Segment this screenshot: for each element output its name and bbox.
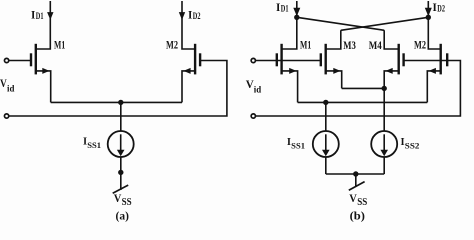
arrow source M2 (b) xyxy=(429,68,436,74)
current source ISS1 (a) xyxy=(108,131,134,157)
svg-text:M4: M4 xyxy=(369,40,382,52)
wire source M2 (b) xyxy=(427,71,440,103)
wire drain M1 (a) xyxy=(36,1,51,49)
wire VSS stem (b) xyxy=(355,174,357,186)
wire below ISS1 (b) xyxy=(325,157,327,174)
wire cross M3 to ID2 node xyxy=(341,17,429,30)
transistor M1 (b) channel bar xyxy=(280,44,282,75)
current source ISS1 (b) xyxy=(313,131,339,157)
svg-text:D1: D1 xyxy=(36,11,44,21)
svg-text:SS2: SS2 xyxy=(405,141,420,151)
node drain M2-M3 (b) xyxy=(426,15,431,20)
node dot below ISS1 (a) xyxy=(118,170,123,175)
transistor M2 (a) channel bar xyxy=(194,44,196,75)
transistor M2 (a) gate bar xyxy=(199,53,201,66)
wire drain M2 (a) xyxy=(182,1,195,49)
wire below ISS1 (a) xyxy=(120,157,122,190)
wire below ISS2 (b) xyxy=(383,157,385,174)
svg-text:D1: D1 xyxy=(281,3,289,13)
svg-text:M2: M2 xyxy=(414,40,426,52)
node tail junction (a) xyxy=(118,100,123,105)
svg-text:D2: D2 xyxy=(437,3,445,13)
VSS symbol slash (b) xyxy=(349,182,365,191)
svg-text:SS1: SS1 xyxy=(291,141,305,151)
node tail1 junction (b) xyxy=(323,100,328,105)
wire gates M1 M3 (b) xyxy=(255,60,320,62)
arrow source M1 (b) xyxy=(289,68,296,74)
wire common sources (a) xyxy=(51,101,182,103)
arrow in ISS1 (a) xyxy=(120,134,122,151)
svg-text:M3: M3 xyxy=(343,40,356,52)
wire gate lead M1 (a) xyxy=(9,60,30,62)
wire source M4 and drop to ISS2 (b) xyxy=(384,71,399,131)
transistor M1 (b) gate bar xyxy=(276,53,278,66)
wire source M1 (b) xyxy=(282,71,298,103)
current arrow ID2 (a) xyxy=(179,12,185,20)
transistor M2 (b) channel bar xyxy=(440,44,442,75)
svg-text:M1: M1 xyxy=(300,40,311,52)
node Vid- terminal (a) xyxy=(4,114,8,118)
transistor M2 (b) gate bar xyxy=(446,53,448,66)
svg-text:M2: M2 xyxy=(166,40,178,52)
node drain M1-M4 (b) xyxy=(294,15,299,20)
wire drain M1 (b) xyxy=(282,1,297,49)
wire tail ISS1 (b) xyxy=(325,102,327,131)
node Vid+ terminal (b) xyxy=(251,58,255,62)
svg-text:D2: D2 xyxy=(193,11,201,21)
node Vid+ terminal (a) xyxy=(4,58,8,62)
svg-text:(a): (a) xyxy=(116,211,130,223)
transistor M3 gate bar xyxy=(320,53,322,66)
svg-text:id: id xyxy=(7,83,14,93)
wire sources M3-M4 (b) xyxy=(342,87,385,89)
transistor M1 (a) channel bar xyxy=(35,44,37,75)
wire source M1 (a) xyxy=(36,71,51,103)
node M3M4 sources junction (b) xyxy=(382,86,387,91)
VSS symbol slash (a) xyxy=(113,185,129,193)
svg-text:M1: M1 xyxy=(54,40,65,52)
current source ISS2 (b) xyxy=(371,131,397,157)
svg-text:SS: SS xyxy=(357,197,367,208)
transistor M3 channel bar xyxy=(325,44,327,75)
wire gates M4 M2 to lower input (b) xyxy=(255,61,460,117)
wire joining current sources (b) xyxy=(326,173,384,175)
svg-text:id: id xyxy=(254,84,261,94)
svg-text:V: V xyxy=(349,193,357,205)
transistor M4 channel bar xyxy=(398,44,400,75)
transistor M4 gate bar xyxy=(402,53,404,66)
transistor M1 (a) gate bar xyxy=(30,53,32,66)
arrow source M3 (b) xyxy=(333,68,340,74)
arrow source M1 (a) xyxy=(42,68,49,74)
wire source M2 (a) xyxy=(182,71,195,103)
svg-text:(b): (b) xyxy=(350,211,365,223)
current arrow ID1 (b) xyxy=(293,8,300,16)
arrow source M4 (b) xyxy=(386,68,393,74)
current arrow ID2 (b) xyxy=(425,8,432,16)
arrow in ISS1 (b) xyxy=(325,134,327,151)
wire drain M3 (b) xyxy=(326,30,341,49)
svg-text:SS: SS xyxy=(122,197,132,208)
wire gate M2 to lower input (a) xyxy=(9,61,227,117)
wire source M3 (b) xyxy=(326,71,342,89)
node VSS junction (b) xyxy=(353,171,358,176)
svg-text:SS1: SS1 xyxy=(87,140,101,150)
wire tail (a) xyxy=(120,102,122,131)
wire drain M4 (b) xyxy=(384,30,399,49)
current arrow ID1 (a) xyxy=(47,12,53,20)
node Vid- terminal (b) xyxy=(251,114,255,118)
wire common sources M1 M2 (b) xyxy=(298,101,428,103)
wire drain M2 (b) xyxy=(428,1,440,49)
arrow source M2 (a) xyxy=(183,68,190,74)
wire cross M4 to ID1 node xyxy=(297,17,384,30)
arrow in ISS2 (b) xyxy=(383,134,385,151)
